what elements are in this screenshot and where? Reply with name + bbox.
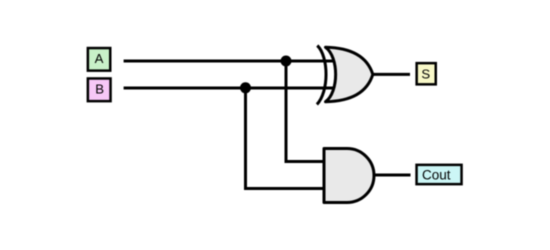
svg-text:Cout: Cout bbox=[422, 168, 451, 183]
svg-text:B: B bbox=[95, 81, 104, 96]
svg-text:S: S bbox=[421, 67, 430, 82]
svg-text:A: A bbox=[95, 51, 104, 66]
